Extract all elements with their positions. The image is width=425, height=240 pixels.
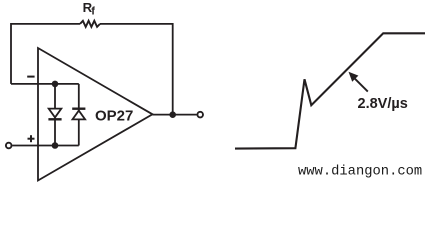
svg-text:f: f — [91, 5, 95, 17]
op-amp U1 triangle — [38, 48, 153, 181]
arrow: slope callout — [349, 72, 368, 92]
svg-text:2.8V/µs: 2.8V/µs — [358, 96, 408, 112]
junction dot: output node — [169, 111, 176, 118]
wire: feedback top-left (output loop left side) — [11, 24, 80, 84]
terminal: input (open circle) — [6, 143, 12, 149]
wire: left diode branch vertical — [54, 84, 56, 146]
junction dot: inverting input node — [52, 81, 59, 88]
wire: non-inverting input horizontal — [12, 145, 79, 147]
junction dot: non-inverting input node — [52, 142, 59, 149]
label: plus sign — [28, 135, 35, 142]
wire: right diode branch vertical — [78, 84, 80, 146]
waveform: slewing output trace — [235, 33, 425, 148]
diode D1 (cathode down) — [48, 109, 61, 120]
svg-text:OP27: OP27 — [95, 108, 133, 125]
label: Rf — [83, 0, 96, 17]
terminal: output (open circle) — [197, 112, 203, 118]
wire: output — [153, 114, 197, 116]
label: minus sign — [27, 76, 34, 78]
resistor Rf — [80, 21, 100, 27]
diode D2 (cathode up) — [72, 109, 85, 120]
svg-text:www.diangon.com: www.diangon.com — [298, 164, 422, 180]
wire: feedback top-right and right vertical — [100, 24, 173, 115]
wire: inverting input horizontal — [11, 83, 79, 85]
